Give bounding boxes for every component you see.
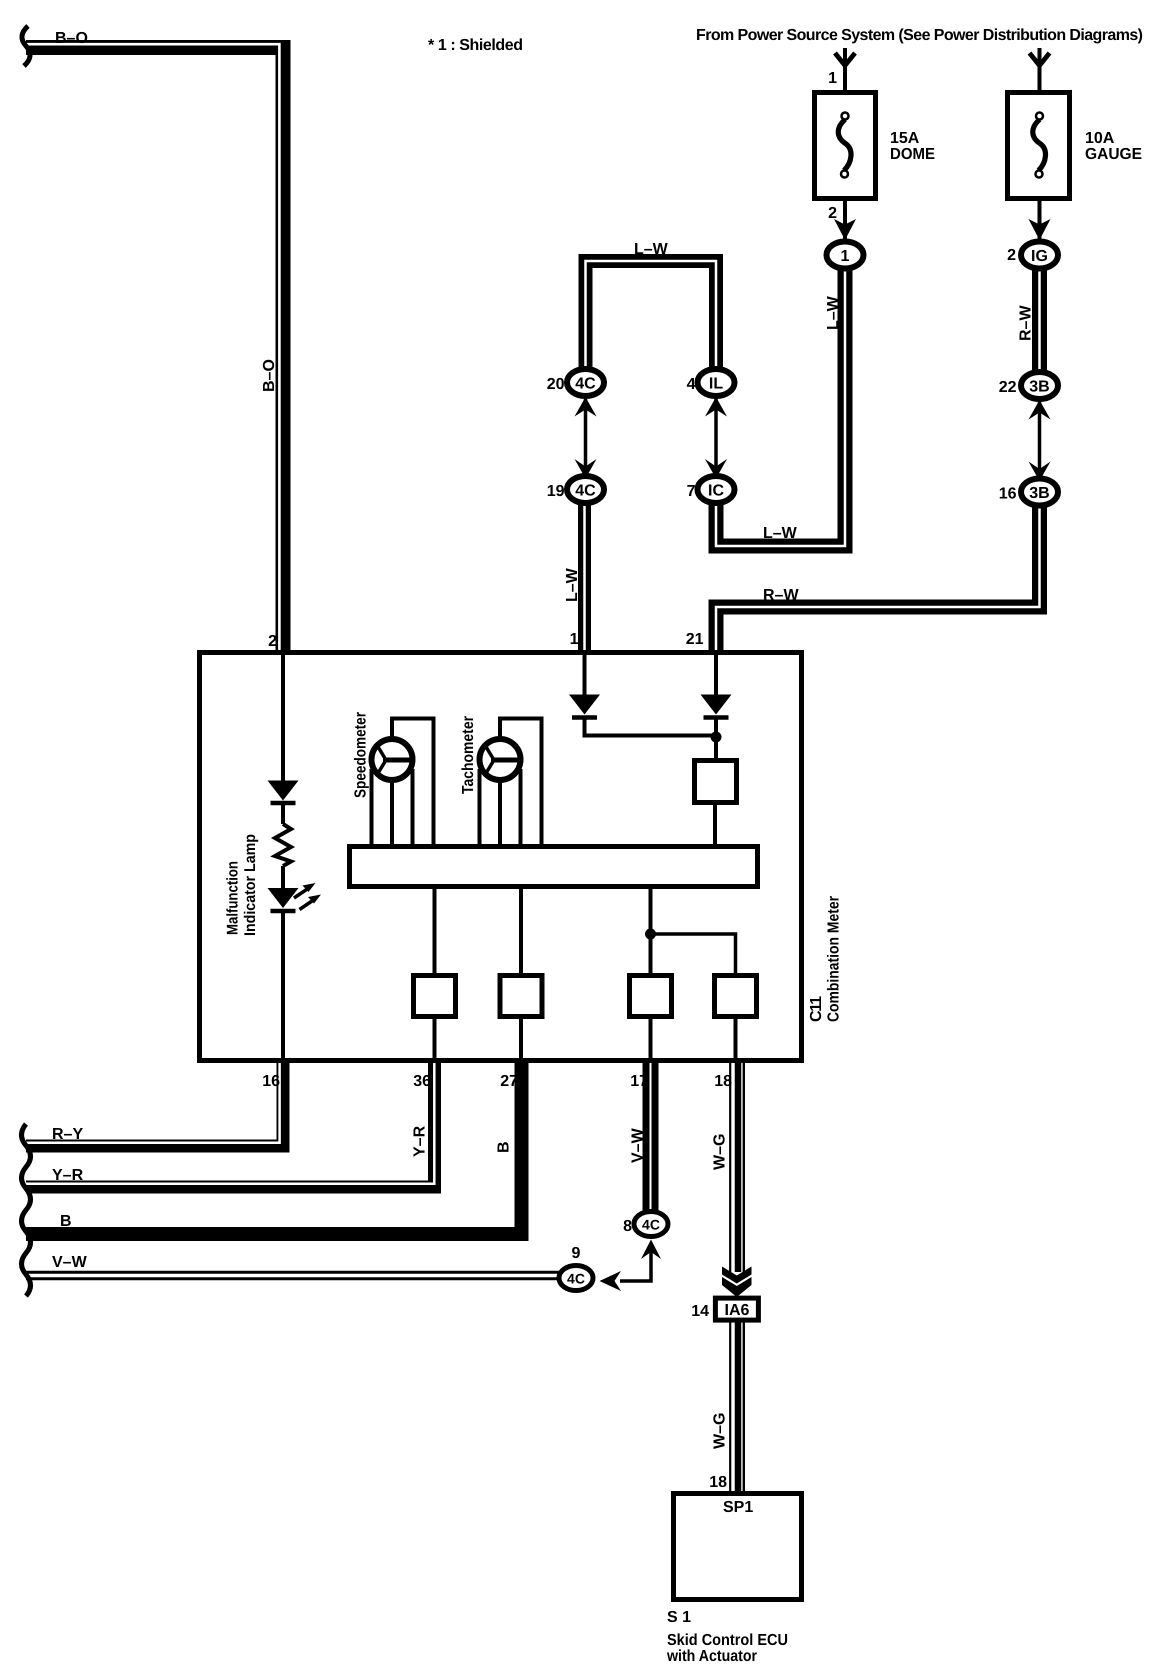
wire R-W from connector IG down to connector 22 3B [1032,260,1047,378]
wire box to pin 17 [649,1016,653,1062]
svg-text:with Actuator: with Actuator [666,1648,757,1665]
svg-text:2: 2 [268,633,277,650]
svg-text:4C: 4C [575,376,596,393]
svg-text:IC: IC [708,483,724,500]
connector 19 4C [567,476,604,503]
svg-text:Speedometer: Speedometer [353,712,370,798]
wire diode 1 to junction [585,719,717,736]
wire W-G from connector 14 IA6 down to Skid Control ECU SP1 [730,1322,744,1492]
wire bus to junction 17 [649,886,653,975]
svg-text:7: 7 [687,483,696,500]
svg-text:3B: 3B [1029,485,1049,502]
svg-text:1: 1 [828,70,837,87]
power feed arrow to fuse GAUGE [1030,48,1050,92]
wire bus to box 36 [433,886,437,975]
speedometer gauge [372,739,413,780]
connector 7 IC [698,476,735,503]
svg-text:4C: 4C [575,483,596,500]
svg-text:R–W: R–W [763,587,799,604]
connector 20 4C [567,369,604,396]
wire interface box to bus [713,802,717,846]
svg-text:From Power Source System (See: From Power Source System (See Power Dist… [696,27,1143,44]
fuse 15A DOME [815,93,876,199]
wire bus to box 27 [519,886,523,975]
svg-text:36: 36 [413,1073,431,1090]
wire R-W from connector 16 3B down-left to meter pin 21 [716,497,1040,653]
wire box to pin 18 [734,1016,738,1062]
svg-text:2: 2 [828,205,837,222]
svg-text:27: 27 [500,1073,518,1090]
svg-text:Skid Control ECU: Skid Control ECU [667,1632,788,1649]
LED malfunction indicator lamp [268,883,322,911]
connector 4 IL [698,369,735,396]
connector 22 3B [1021,372,1058,399]
wire W-G from meter pin 18 down to connector 14 IA6 [730,1060,744,1272]
Skid Control ECU box [674,1494,802,1600]
wire diode to resistor [281,805,285,824]
box above pin 18 [715,976,757,1017]
connector 14 IA6 [715,1298,758,1320]
box above pin 36 [414,976,456,1017]
svg-text:20: 20 [547,376,565,393]
off-page break symbol for R-Y Y-R B V-W wires [22,1124,31,1296]
svg-text:L–W: L–W [634,241,669,258]
svg-text:Combination Meter: Combination Meter [826,896,843,1022]
wire L-W from fuse DOME connector 1 down-left-up to connector 7 IC [716,260,845,546]
bus bar (printed circuit) [350,847,758,887]
wires speedometer to bus [372,717,434,846]
svg-text:3B: 3B [1029,379,1049,396]
box above pin 27 [500,976,542,1017]
svg-text:Indicator Lamp: Indicator Lamp [242,834,259,936]
svg-text:18: 18 [709,1474,727,1491]
svg-text:B–O: B–O [261,359,278,392]
svg-text:4: 4 [687,376,696,393]
wire resistor to LED [281,866,285,889]
wires tachometer to bus [480,717,542,846]
svg-text:1: 1 [570,631,579,648]
svg-text:Y–R: Y–R [412,1125,429,1157]
svg-text:W–G: W–G [712,1134,729,1170]
wire B-O (shielded) from off-page to combination meter pin 2 [26,44,283,653]
svg-text:17: 17 [630,1073,648,1090]
wire box to pin 27 [519,1016,523,1062]
wire fuse GAUGE pin 2 to connector IG [1038,198,1042,244]
fuse 10A GAUGE [1008,93,1070,199]
svg-text:V–W: V–W [630,1127,647,1163]
svg-text:R–Y: R–Y [52,1126,83,1143]
connector 9 4C [559,1266,593,1291]
svg-text:SP1: SP1 [723,1499,753,1516]
box above pin 17 [630,976,672,1017]
arrow into connector IG [1029,219,1051,240]
disconnect arrows between 4 IL and 7 IC [705,397,727,479]
double chevron arrow into connector 14 IA6 [722,1267,752,1298]
svg-text:B: B [60,1213,72,1230]
wire Y-R from meter pin 36 to off-page [26,1060,435,1187]
svg-text:Malfunction: Malfunction [225,861,242,935]
wire V-W from meter pin 17 down to connector 8 4C [643,1060,659,1218]
wire B from meter pin 27 to off-page [26,1060,522,1234]
svg-text:DOME: DOME [890,146,935,163]
off-page break symbol B-O [22,26,30,66]
wire pin 1 to diode [583,652,587,695]
disconnect arrows between 22 3B and 16 3B [1029,400,1051,481]
svg-text:GAUGE: GAUGE [1085,146,1142,163]
svg-text:18: 18 [714,1073,732,1090]
svg-text:S 1: S 1 [667,1609,691,1626]
svg-text:8: 8 [623,1218,632,1235]
tachometer gauge [480,739,521,780]
svg-text:22: 22 [999,379,1017,396]
connector 1 (fuse DOME output) [827,242,864,269]
svg-text:C11: C11 [808,996,825,1022]
wire R-Y from meter pin 16 to off-page [26,1060,283,1146]
svg-text:19: 19 [547,483,565,500]
svg-text:21: 21 [686,631,704,648]
svg-text:* 1 : Shielded: * 1 : Shielded [428,37,523,54]
diode under pin 1 [569,695,600,718]
svg-text:V–W: V–W [52,1254,88,1271]
svg-text:B: B [496,1141,513,1153]
resistor (MIL branch) [275,824,291,866]
disconnect arrow below connector 8 4C and wire to connector 9 4C [600,1240,662,1292]
wire diode 21 to junction [714,719,718,762]
svg-text:IL: IL [709,376,723,393]
svg-text:2: 2 [1007,247,1016,264]
diode (MIL branch) [268,781,299,804]
svg-text:L–W: L–W [763,525,798,542]
junction dot [711,732,722,743]
wire pin 21 to diode [714,652,718,695]
connector 16 3B [1021,479,1058,506]
svg-text:R–W: R–W [1018,305,1035,341]
power feed arrow to fuse DOME [835,48,855,92]
arrow into connector 1 [834,219,856,240]
combination meter C11 box [200,653,802,1061]
disconnect arrows between 20 4C and 19 4C [575,397,597,479]
wire L-W loop from connector 20 4C to connector 4 IL [586,261,717,374]
wire L-W from connector 19 4C down to meter pin 1 [578,495,591,653]
wire box to pin 36 [433,1016,437,1062]
svg-text:10A: 10A [1085,130,1115,147]
svg-text:4C: 4C [642,1217,660,1233]
svg-text:14: 14 [691,1303,709,1320]
svg-text:1: 1 [841,248,850,265]
junction dot 17/18 [645,929,656,940]
svg-text:L–W: L–W [564,567,581,602]
svg-text:IG: IG [1031,248,1048,265]
connector 8 4C [634,1212,668,1237]
svg-text:9: 9 [572,1245,581,1262]
wire pin 2 to malfunction indicator lamp [281,652,285,781]
svg-text:4C: 4C [567,1271,585,1287]
svg-text:15A: 15A [890,130,920,147]
svg-text:W–G: W–G [712,1413,729,1449]
wire junction to box 18 [651,934,736,975]
svg-text:Tachometer: Tachometer [460,716,477,794]
interface box inside meter [695,761,737,803]
wire LED to pin 16 [281,913,285,1062]
svg-text:Y–R: Y–R [52,1167,84,1184]
svg-text:IA6: IA6 [725,1302,750,1319]
svg-text:L–W: L–W [825,295,842,330]
svg-text:16: 16 [999,486,1017,503]
connector IG (fuse GAUGE output) [1021,242,1058,269]
diode under pin 21 [701,695,732,718]
svg-text:16: 16 [262,1073,280,1090]
svg-text:B–O: B–O [55,30,88,47]
wire V-W from connector 9 4C to off-page [26,1271,570,1281]
wire fuse DOME pin 2 to connector 1 [843,198,847,244]
